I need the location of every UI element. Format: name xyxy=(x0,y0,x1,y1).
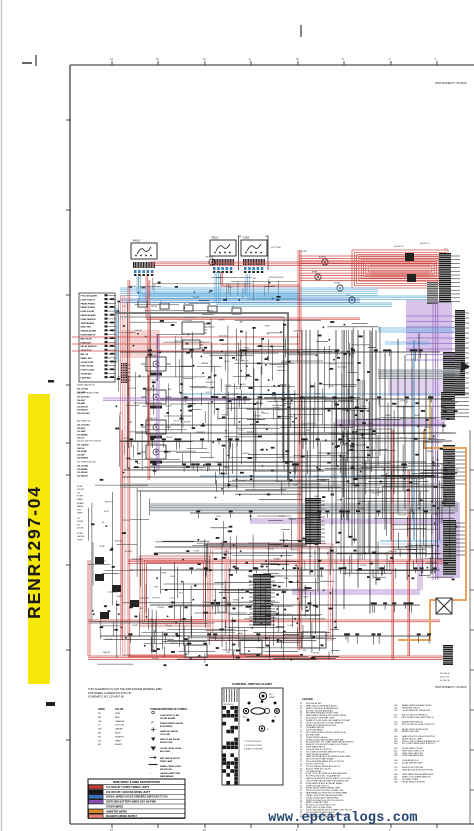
svg-text:306-PU: 306-PU xyxy=(262,413,269,415)
connector P1 comb xyxy=(439,253,460,303)
wire blue center low xyxy=(180,394,440,476)
svg-text:ALARM: ALARM xyxy=(280,384,287,387)
svg-text:LEVEL: LEVEL xyxy=(224,361,231,363)
gray bus thick mid xyxy=(150,504,458,511)
label INSTRUMENT ON BOX bottom xyxy=(435,685,467,689)
svg-text:BU: BU xyxy=(98,733,101,735)
orange vertical wire xyxy=(429,395,431,440)
svg-text:115-GND: 115-GND xyxy=(77,431,86,433)
svg-text:200-BK ALARM: 200-BK ALARM xyxy=(160,717,175,720)
svg-text:RD: RD xyxy=(98,717,102,719)
svg-text:PANEL: PANEL xyxy=(77,498,84,501)
svg-text:LIGHT: LIGHT xyxy=(336,499,343,501)
svg-text:PRESS: PRESS xyxy=(254,415,261,417)
svg-text:PANEL KEY: PANEL KEY xyxy=(81,357,93,360)
svg-text:200-BK: 200-BK xyxy=(313,652,320,654)
relay stack R1-R4 xyxy=(141,354,171,464)
svg-text:LIGHT 109-RD: LIGHT 109-RD xyxy=(81,370,95,372)
svg-text:415-GN 34: 415-GN 34 xyxy=(440,673,451,675)
diode arrow right xyxy=(461,361,470,372)
svg-text:HEAT: HEAT xyxy=(264,600,270,603)
mesh lower center xyxy=(151,539,339,660)
svg-text:AIR: AIR xyxy=(253,277,257,280)
svg-text:LAMP BAT: LAMP BAT xyxy=(81,376,92,379)
svg-text:A701-BU: A701-BU xyxy=(219,334,228,337)
svg-text:PRESS: PRESS xyxy=(258,594,265,596)
svg-text:PRESS: PRESS xyxy=(358,508,365,510)
svg-text:F710-GN ALARM: F710-GN ALARM xyxy=(81,295,98,298)
svg-text:408-OR 12: 408-OR 12 xyxy=(394,246,405,248)
svg-text:200-BK: 200-BK xyxy=(106,639,113,641)
mesh top connector area xyxy=(129,277,298,301)
svg-text:ECM: ECM xyxy=(222,344,227,346)
svg-text:BRAKE: BRAKE xyxy=(225,384,232,387)
svg-text:FUSE: FUSE xyxy=(278,434,284,436)
svg-text:HORN: HORN xyxy=(77,521,84,523)
svg-text:RELAY: RELAY xyxy=(371,492,378,495)
url watermark epcatalogs xyxy=(268,811,417,826)
svg-text:129-RELAY: 129-RELAY xyxy=(77,409,88,412)
svg-text:WIRE: WIRE xyxy=(284,578,290,580)
svg-text:COOL: COOL xyxy=(170,598,177,600)
svg-text:FUSE: FUSE xyxy=(288,416,294,418)
svg-text:INSTRUMENT ON BOX: INSTRUMENT ON BOX xyxy=(435,685,467,689)
svg-text:(OPTION): (OPTION) xyxy=(271,247,281,249)
svg-text:2 POSITION "RUN": 2 POSITION "RUN" xyxy=(244,745,262,747)
svg-text:HEAT: HEAT xyxy=(197,655,203,658)
svg-text:LAMP: LAMP xyxy=(142,405,148,408)
svg-text:261-: 261- xyxy=(394,762,398,764)
svg-text:TEMP LAMP: TEMP LAMP xyxy=(160,760,173,763)
frame right edge xyxy=(470,430,474,824)
svg-text:200-BK: 200-BK xyxy=(360,565,367,567)
svg-text:RELAY: RELAY xyxy=(166,436,173,439)
svg-text:OTHER WIRES: OTHER WIRES xyxy=(106,805,124,808)
svg-text:FUEL: FUEL xyxy=(216,516,222,518)
svg-text:LAMP: LAMP xyxy=(77,512,83,515)
svg-text:GY: GY xyxy=(98,740,102,742)
pink vertical bundle center xyxy=(225,548,228,625)
svg-text:DIODE A1: DIODE A1 xyxy=(183,319,193,322)
svg-text:FUEL: FUEL xyxy=(434,514,440,516)
svg-text:MOTOR: MOTOR xyxy=(265,587,273,589)
svg-text:200-BK: 200-BK xyxy=(341,436,348,438)
svg-text:109-RD BAT FUEL 200-BK ECM: 109-RD BAT FUEL 200-BK ECM xyxy=(402,709,430,712)
svg-text:HORN 109-RD: HORN 109-RD xyxy=(81,311,95,313)
svg-text:GAUGE: GAUGE xyxy=(103,651,111,654)
svg-text:GAUGE LAMP FUSE: GAUGE LAMP FUSE xyxy=(160,772,181,775)
svg-text:ALARM: ALARM xyxy=(206,256,213,259)
svg-text:109-RD: 109-RD xyxy=(232,394,239,396)
svg-text:HORN: HORN xyxy=(279,516,285,518)
svg-text:RELAY: RELAY xyxy=(151,305,158,308)
svg-text:RELAY: RELAY xyxy=(449,466,456,469)
wire red mid horizontal xyxy=(128,560,445,564)
svg-text:200-BK GAUGE PUMP: 200-BK GAUGE PUMP xyxy=(402,761,423,764)
svg-text:GN: GN xyxy=(98,729,102,731)
registration mark top-center xyxy=(300,25,302,37)
svg-text:ALARM: ALARM xyxy=(242,452,249,455)
svg-text:LIGHT K920-YL AIR: LIGHT K920-YL AIR xyxy=(160,714,180,717)
svg-text:AIR: AIR xyxy=(256,401,260,404)
long horizontal wires center xyxy=(123,425,457,553)
control switch chart xyxy=(222,682,283,785)
svg-text:ORANGE: ORANGE xyxy=(115,720,125,723)
svg-text:GND: GND xyxy=(302,650,307,652)
connector P2 comb gray xyxy=(427,282,438,304)
svg-text:RELAY: RELAY xyxy=(425,426,432,429)
svg-text:200-BK: 200-BK xyxy=(184,422,191,424)
svg-text:SWITCHED BATTERY WIRES KEY ON: SWITCHED BATTERY WIRES KEY ON PWR xyxy=(106,801,156,804)
harness row 1 xyxy=(120,349,440,361)
svg-text:FUSE: FUSE xyxy=(400,437,406,439)
svg-text:LAMP: LAMP xyxy=(283,637,289,640)
svg-text:FOR WHEEL LOADER S/N 4YS1-UP: FOR WHEEL LOADER S/N 4YS1-UP xyxy=(88,691,132,695)
mesh bottom strip xyxy=(89,599,300,666)
frame ticks top xyxy=(110,57,437,65)
svg-text:136-A701-BU: 136-A701-BU xyxy=(77,412,90,415)
svg-text:GAUGE ALARM: GAUGE ALARM xyxy=(81,330,97,333)
wire bundle purple horiz 1 xyxy=(335,420,445,426)
lavender field right mid xyxy=(388,378,460,396)
svg-text:MOTOR SOL: MOTOR SOL xyxy=(160,769,173,771)
svg-text:A701-BU: A701-BU xyxy=(203,560,212,563)
svg-text:231-: 231- xyxy=(394,731,398,733)
svg-text:SWITCH: SWITCH xyxy=(240,361,248,363)
svg-text:FUEL: FUEL xyxy=(224,551,230,553)
wire blue left drop xyxy=(116,308,118,362)
svg-text:109-RD: 109-RD xyxy=(77,489,85,491)
svg-text:ECM: ECM xyxy=(104,511,109,513)
component X1 crossed box xyxy=(436,598,452,614)
mesh center xyxy=(215,319,380,500)
svg-text:MAGNETO WIRES SUPPLY: MAGNETO WIRES SUPPLY xyxy=(106,815,138,818)
red nest bottom left xyxy=(140,556,210,626)
svg-text:GAUGE: GAUGE xyxy=(135,329,143,332)
connector J3 cab harness xyxy=(241,237,267,274)
svg-text:SWITCH: SWITCH xyxy=(174,341,182,343)
svg-text:101-200-BK: 101-200-BK xyxy=(77,466,89,468)
svg-text:129-PRESS: 129-PRESS xyxy=(77,458,89,460)
wire red left verticals low xyxy=(88,430,122,656)
svg-text:K920-YL: K920-YL xyxy=(210,637,219,639)
svg-text:PUMP SENSOR: PUMP SENSOR xyxy=(81,319,97,321)
svg-text:SWITCH: SWITCH xyxy=(105,501,113,503)
wire salmon left vertical pair xyxy=(121,295,125,655)
svg-text:283-: 283- xyxy=(394,781,398,783)
svg-text:PRESS PRESS GAUGE: PRESS PRESS GAUGE xyxy=(160,722,183,725)
wire purple drop left xyxy=(157,335,159,470)
svg-text:CONTROL SWITCH CHART: CONTROL SWITCH CHART xyxy=(232,682,272,686)
svg-text:202-: 202- xyxy=(394,710,398,712)
svg-text:HORN GAUGE CB: HORN GAUGE CB xyxy=(77,384,95,387)
svg-text:PANEL: PANEL xyxy=(427,450,434,453)
svg-text:KEY: KEY xyxy=(77,509,82,511)
mesh left lower xyxy=(88,472,150,637)
svg-text:SWITCH: SWITCH xyxy=(277,409,285,411)
svg-text:211-: 211- xyxy=(394,717,398,719)
wire red J2 drop xyxy=(221,272,300,287)
gray vertical bundle 2 xyxy=(360,380,364,560)
svg-text:AMMETER WIRES: AMMETER WIRES xyxy=(106,810,127,813)
svg-text:101-109-RD: 101-109-RD xyxy=(77,389,89,391)
svg-text:AIR: AIR xyxy=(240,321,244,324)
svg-text:AID: AID xyxy=(226,626,230,629)
svg-text:BRAKE: BRAKE xyxy=(77,502,85,505)
left notes small list xyxy=(77,486,85,541)
mesh right mid xyxy=(330,399,458,580)
svg-text:LIGHT: LIGHT xyxy=(288,625,295,627)
connector P7 comb xyxy=(443,520,466,575)
svg-text:PUMP: PUMP xyxy=(161,573,167,575)
switch cluster SW group xyxy=(95,557,139,619)
wire purple pair left xyxy=(103,398,250,400)
svg-text:BRAKE: BRAKE xyxy=(201,362,208,365)
svg-text:FUSE: FUSE xyxy=(240,480,246,482)
connector J1 machine harness xyxy=(131,240,157,277)
svg-text:OIL PUMP A701-BU: OIL PUMP A701-BU xyxy=(77,461,96,464)
registration mark left-bottom xyxy=(46,702,55,706)
svg-text:HEAT: HEAT xyxy=(274,612,280,615)
junction bus J4 xyxy=(121,363,131,383)
svg-text:F710-GN: F710-GN xyxy=(268,617,277,619)
svg-text:COLOR: COLOR xyxy=(115,709,124,711)
wire red vertical A xyxy=(128,280,300,657)
svg-text:SOL LIGHT PRESS SWITCH K920-YL: SOL LIGHT PRESS SWITCH K920-YL xyxy=(402,743,436,745)
frame ticks left xyxy=(66,120,70,740)
svg-text:KEY: KEY xyxy=(216,605,221,607)
svg-text:F710-GN: F710-GN xyxy=(128,388,137,390)
svg-text:101-A701-BU: 101-A701-BU xyxy=(77,424,90,427)
svg-text:ALARM: ALARM xyxy=(115,539,122,542)
svg-text:108-OIL: 108-OIL xyxy=(77,448,85,450)
svg-text:417-BU 36: 417-BU 36 xyxy=(440,680,450,682)
svg-text:ECM: ECM xyxy=(400,401,405,403)
inline component cascade xyxy=(138,299,241,314)
wire blue horiz mid xyxy=(120,288,378,303)
wire blue right upper xyxy=(378,328,455,344)
svg-text:COOL: COOL xyxy=(238,430,245,432)
svg-text:PANEL: PANEL xyxy=(219,319,226,322)
wire red horiz rows xyxy=(72,337,300,351)
svg-text:306-PU: 306-PU xyxy=(165,406,172,408)
svg-text:BAT A701-BU GND: BAT A701-BU GND xyxy=(402,730,419,733)
terminal strip TS1 xyxy=(79,293,116,382)
wire color abbreviation table xyxy=(98,708,125,746)
svg-text:PRESS: PRESS xyxy=(123,520,130,522)
svg-text:SWITCH AID 200-BK: SWITCH AID 200-BK xyxy=(160,738,181,741)
orange wire loop xyxy=(398,430,466,640)
svg-text:GRAY: GRAY xyxy=(115,739,122,742)
svg-text:129-OIL: 129-OIL xyxy=(77,438,85,440)
component legend column 2 xyxy=(394,704,440,783)
mesh sparse upper center xyxy=(181,331,300,430)
svg-text:ECM: ECM xyxy=(329,386,334,388)
svg-text:OR: OR xyxy=(98,721,102,723)
wire color legend table xyxy=(88,779,185,819)
svg-text:409-PU 13: 409-PU 13 xyxy=(420,243,430,245)
svg-text:ABBR: ABBR xyxy=(98,708,105,711)
component M1 M2 in nest xyxy=(405,253,416,282)
gauge symbols cluster xyxy=(206,256,355,304)
svg-text:SIGNAL WIRES GAUGE SENDERS SWI: SIGNAL WIRES GAUGE SENDERS SWITCHES TO G… xyxy=(106,796,168,799)
notes paragraph xyxy=(88,687,162,699)
svg-text:LEVEL: LEVEL xyxy=(240,384,247,386)
harness row 7 xyxy=(100,633,431,645)
svg-text:SWITCH: SWITCH xyxy=(277,367,285,369)
svg-text:A701-BU: A701-BU xyxy=(338,366,347,369)
svg-text:A701-BU: A701-BU xyxy=(438,557,447,560)
svg-text:LIGHT K920-YL: LIGHT K920-YL xyxy=(81,299,97,301)
svg-text:GAUGE: GAUGE xyxy=(170,642,178,645)
registration mark top-left xyxy=(22,55,36,66)
svg-text:AID: AID xyxy=(168,624,172,627)
svg-text:221-: 221- xyxy=(394,724,398,726)
svg-text:RENR1297-04: RENR1297-04 xyxy=(24,485,44,619)
svg-text:www.epcatalogs.com: www.epcatalogs.com xyxy=(268,811,417,826)
wire bundle purple horiz 3 xyxy=(292,558,422,594)
connector P8 comb xyxy=(443,645,453,665)
gray trunk wire xyxy=(115,313,288,480)
svg-text:FUEL: FUEL xyxy=(170,576,176,578)
svg-text:BAT 306-PU: BAT 306-PU xyxy=(81,337,93,340)
svg-text:RELAY FUEL: RELAY FUEL xyxy=(160,741,174,744)
svg-text:PANEL PRESS LIGHT: PANEL PRESS LIGHT xyxy=(160,765,182,768)
svg-text:GND FUEL: GND FUEL xyxy=(81,327,92,329)
gray vertical bundle 1 xyxy=(342,330,349,520)
svg-text:RED: RED xyxy=(115,717,120,719)
svg-text:F710-GN: F710-GN xyxy=(398,514,407,516)
gray horiz band low xyxy=(120,484,455,488)
svg-text:416-YL 35: 416-YL 35 xyxy=(440,677,450,679)
svg-text:MOTOR: MOTOR xyxy=(202,606,210,608)
svg-text:122-PANEL: 122-PANEL xyxy=(77,433,89,436)
svg-text:108-PANEL: 108-PANEL xyxy=(77,468,89,471)
svg-text:LAMP OIL GAUGE: LAMP OIL GAUGE xyxy=(160,730,179,733)
svg-text:108-KEY: 108-KEY xyxy=(77,428,86,430)
svg-text:101-A701-BU: 101-A701-BU xyxy=(77,396,90,399)
svg-text:THIS SCHEMATIC IS FOR THE 3306: THIS SCHEMATIC IS FOR THE 3306 ENGINE W/… xyxy=(88,687,162,691)
svg-text:200-BK: 200-BK xyxy=(152,658,159,660)
component K1 diode box xyxy=(182,319,207,334)
connector P5 comb xyxy=(441,392,469,420)
svg-text:YELLOW: YELLOW xyxy=(115,725,125,727)
svg-text:BLUE: BLUE xyxy=(115,733,121,735)
svg-text:115-PUMP: 115-PUMP xyxy=(77,451,88,453)
wire red top bus xyxy=(150,262,437,266)
svg-text:PRESS ALARM: PRESS ALARM xyxy=(81,314,96,317)
salmon loop center xyxy=(208,544,333,640)
yellow spine label RENR1297-04 xyxy=(24,394,50,684)
mesh left mid xyxy=(115,300,215,471)
svg-text:BRAKE: BRAKE xyxy=(274,558,281,561)
svg-text:115-BAT: 115-BAT xyxy=(77,402,86,405)
svg-text:ECM: ECM xyxy=(206,392,211,394)
svg-text:306-PU: 306-PU xyxy=(291,550,298,552)
svg-text:306-PU: 306-PU xyxy=(289,519,296,521)
red wire nest loops xyxy=(352,250,448,288)
purple fan into P3 xyxy=(406,316,455,360)
connector CN2 comb xyxy=(305,498,325,544)
svg-text:ECM: ECM xyxy=(236,388,241,390)
wire blue horiz low xyxy=(380,541,442,544)
svg-text:LAMP: LAMP xyxy=(271,394,277,397)
svg-text:F710-GN: F710-GN xyxy=(280,539,289,541)
wire blue vertical right xyxy=(413,340,415,540)
svg-text:FUSE: FUSE xyxy=(233,599,239,601)
wire bundle blue J1 down xyxy=(137,276,300,298)
svg-text:HEAT: HEAT xyxy=(415,414,421,417)
svg-text:START: START xyxy=(117,595,124,598)
svg-text:"MACH": "MACH" xyxy=(132,240,141,243)
svg-text:INSTRUMENT ON BOX: INSTRUMENT ON BOX xyxy=(435,81,467,85)
harness row 6 xyxy=(130,567,440,577)
svg-text:PU: PU xyxy=(98,736,101,738)
svg-text:PUMP: PUMP xyxy=(99,546,105,548)
registration mark spine top xyxy=(48,380,54,383)
svg-text:FUEL 200-BK: FUEL 200-BK xyxy=(81,366,94,368)
svg-text:PANEL: PANEL xyxy=(77,505,84,508)
component legend column 1 xyxy=(300,697,354,819)
svg-text:GREEN: GREEN xyxy=(115,729,123,731)
svg-text:MOTOR K920-YL LEVEL CB MOTOR: MOTOR K920-YL LEVEL CB MOTOR xyxy=(402,724,435,726)
svg-text:306-PU 306-PU F710-GN: 306-PU 306-PU F710-GN xyxy=(77,441,101,443)
svg-text:PRESS: PRESS xyxy=(157,607,164,609)
svg-text:TEMP: TEMP xyxy=(293,485,299,487)
connector J2 engine harness xyxy=(210,237,236,274)
lavender field right lower xyxy=(436,502,460,578)
harness row 5 xyxy=(190,510,455,520)
svg-text:COOL AID: COOL AID xyxy=(160,733,171,736)
svg-text:HORN SWITCH: HORN SWITCH xyxy=(81,335,96,337)
frame border xyxy=(70,65,474,824)
svg-text:COOL: COOL xyxy=(218,544,225,546)
svg-text:ALARM: ALARM xyxy=(294,330,301,333)
svg-text:253-: 253- xyxy=(394,755,398,757)
svg-text:WIRE: WIRE xyxy=(265,326,271,328)
svg-text:122-AIR: 122-AIR xyxy=(77,453,85,456)
bracket enclosure around J3 xyxy=(239,236,282,270)
svg-text:PRESS PRESS: PRESS PRESS xyxy=(81,307,96,309)
mesh center gap xyxy=(192,515,309,571)
svg-text:109-RD LEVEL LEVEL: 109-RD LEVEL LEVEL xyxy=(160,748,182,750)
svg-text:HORN: HORN xyxy=(334,283,340,285)
svg-text:122-306-PU: 122-306-PU xyxy=(77,406,89,408)
wire id list left column xyxy=(77,384,101,478)
harness row 2 xyxy=(160,396,452,407)
svg-text:FUSE: FUSE xyxy=(194,551,200,553)
svg-text:243-: 243- xyxy=(394,743,398,745)
svg-text:GAUGE: GAUGE xyxy=(77,535,85,538)
svg-text:109-RD: 109-RD xyxy=(77,528,85,530)
svg-text:271-: 271- xyxy=(394,769,398,771)
svg-text:BAT GAUGE 306-PU: BAT GAUGE 306-PU xyxy=(160,757,180,760)
svg-text:PRESS PRESS: PRESS PRESS xyxy=(81,303,96,305)
svg-text:AID LIGHT: AID LIGHT xyxy=(160,750,171,753)
svg-text:START: START xyxy=(269,696,276,699)
svg-text:TEMP: TEMP xyxy=(77,539,83,541)
symbol legend column xyxy=(149,709,188,778)
svg-text:"CAB2": "CAB2" xyxy=(242,237,250,240)
connector P3 comb xyxy=(455,310,469,396)
wire bundle purple horiz 2 xyxy=(250,519,443,523)
wire red J1 drop xyxy=(146,276,360,320)
pink band mid xyxy=(120,330,160,358)
svg-text:ALARM: ALARM xyxy=(273,406,280,409)
svg-text:TEMP BRAKE: TEMP BRAKE xyxy=(81,322,95,325)
lavender field right upper xyxy=(406,300,452,352)
svg-text:OFF RUN ST: OFF RUN ST xyxy=(223,704,235,706)
